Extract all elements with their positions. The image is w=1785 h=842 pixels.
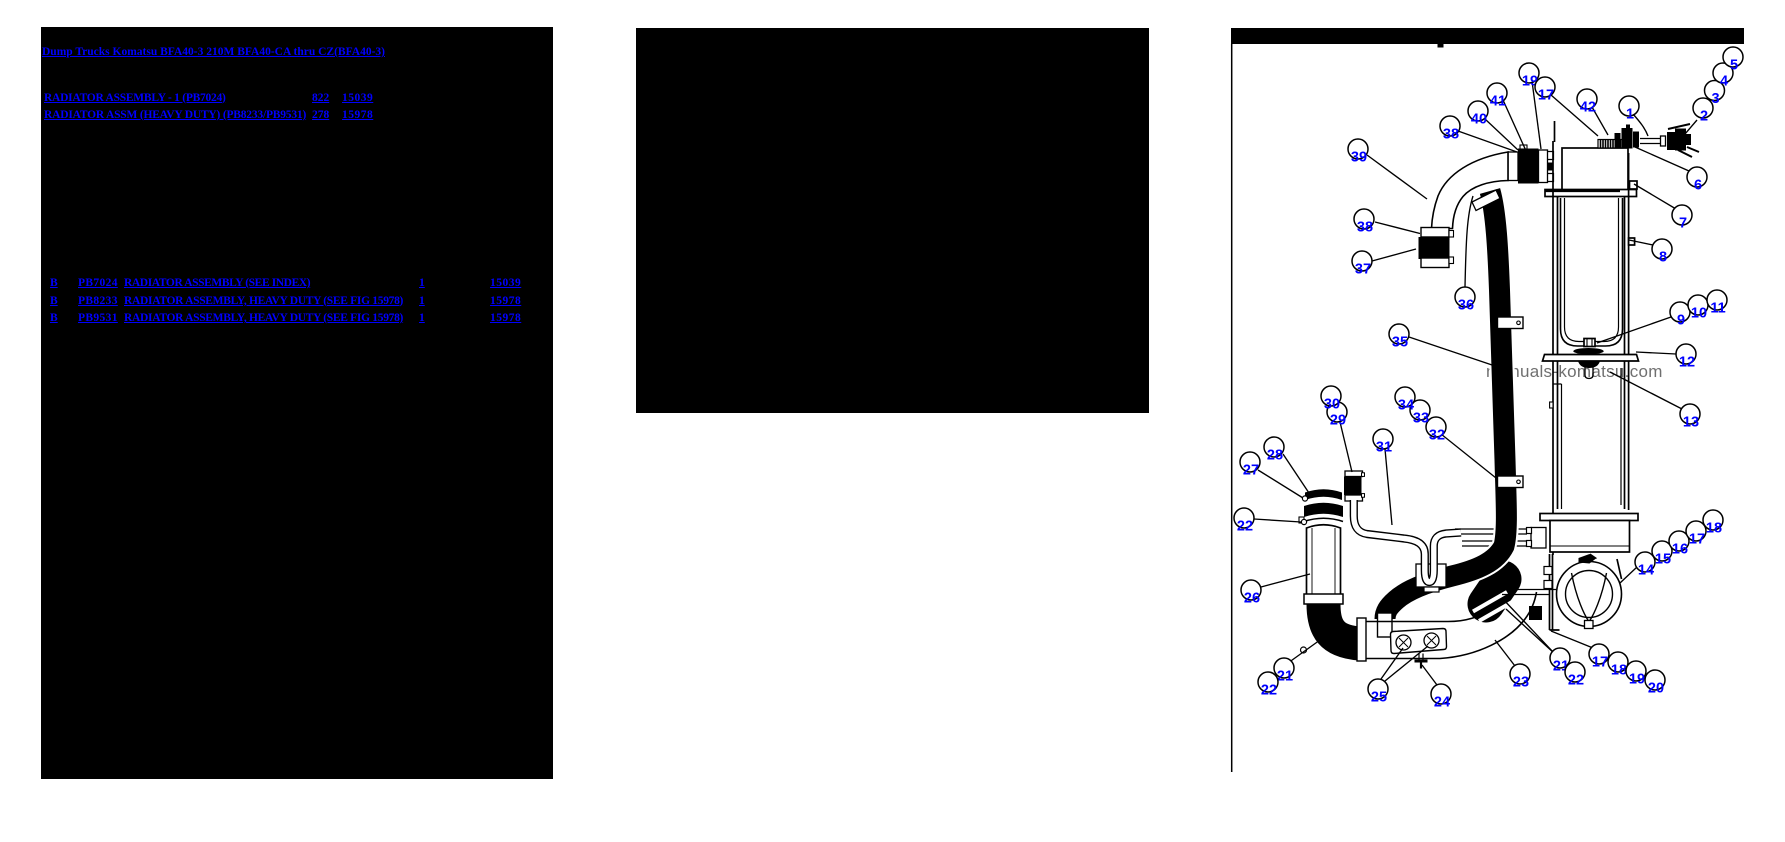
callout 28 bbox=[1264, 437, 1284, 464]
callout 23 bbox=[1510, 664, 1530, 691]
callout 26 bbox=[1241, 580, 1261, 607]
callout 10 bbox=[1688, 295, 1708, 322]
callout 12 bbox=[1676, 344, 1696, 371]
callout 27 bbox=[1240, 452, 1260, 479]
svg-text:3: 3 bbox=[1711, 91, 1719, 107]
vent valve assembly (items 2-5) bbox=[1667, 129, 1691, 151]
index line 2 bbox=[44, 110, 306, 121]
hose coupling clamps (items 37/38) bbox=[1419, 228, 1454, 268]
radiator top tank bbox=[1562, 148, 1628, 190]
drain fitting (item 13 target) bbox=[1585, 367, 1593, 379]
hose bracket upper bbox=[1498, 317, 1524, 329]
svg-text:17: 17 bbox=[1592, 655, 1608, 671]
callout 20 bbox=[1645, 670, 1665, 697]
hose end stub bbox=[1378, 613, 1393, 637]
callout circles bbox=[1234, 47, 1743, 711]
callout 17 bbox=[1589, 644, 1609, 671]
callout 32 bbox=[1426, 417, 1446, 444]
callout 18 bbox=[1608, 652, 1628, 679]
svg-text:15: 15 bbox=[1655, 552, 1671, 568]
svg-text:34: 34 bbox=[1398, 398, 1414, 414]
svg-text:6: 6 bbox=[1694, 178, 1702, 194]
radiator cap assembly (item 1) bbox=[1615, 125, 1640, 149]
overflow nub (item 8 target) bbox=[1629, 238, 1635, 245]
leader tip dots bbox=[1301, 496, 1307, 525]
svg-text:1: 1 bbox=[1626, 107, 1634, 123]
callout 21 bbox=[1550, 648, 1570, 675]
svg-text:35: 35 bbox=[1392, 335, 1408, 351]
svg-text:26: 26 bbox=[1244, 591, 1260, 607]
radiator filler neck (item 42) bbox=[1598, 140, 1623, 149]
upper radiator hose (items 39) bbox=[1432, 152, 1509, 229]
svg-text:27: 27 bbox=[1243, 463, 1259, 479]
tank side bosses bbox=[1548, 152, 1554, 182]
lower tank seal (black) bbox=[1578, 361, 1600, 368]
callout 39 bbox=[1348, 139, 1368, 166]
drain valve (item 24) bbox=[1415, 654, 1428, 669]
callout 17 bbox=[1686, 521, 1706, 548]
svg-text:4: 4 bbox=[1720, 74, 1728, 90]
svg-text:40: 40 bbox=[1471, 112, 1487, 128]
figure left border bbox=[1231, 44, 1233, 772]
callout 40 bbox=[1468, 101, 1488, 128]
svg-text:10: 10 bbox=[1691, 306, 1707, 322]
callout 9 bbox=[1670, 302, 1690, 329]
callout 30 bbox=[1321, 386, 1341, 413]
callout 15 bbox=[1652, 541, 1672, 568]
callout 8 bbox=[1652, 239, 1672, 266]
callout 11 bbox=[1707, 290, 1727, 317]
svg-text:19: 19 bbox=[1629, 672, 1645, 688]
svg-text:13: 13 bbox=[1683, 415, 1699, 431]
leader lines bbox=[1254, 81, 1697, 685]
U-bend bracket bbox=[1416, 564, 1446, 587]
callout 22 bbox=[1258, 672, 1278, 699]
svg-text:16: 16 bbox=[1672, 542, 1688, 558]
svg-text:37: 37 bbox=[1355, 262, 1371, 278]
left catalog panel (black) bbox=[41, 27, 553, 779]
callout 24 bbox=[1431, 684, 1451, 711]
mounting plate with bolts (item 25 targets) bbox=[1391, 629, 1447, 654]
breadcrumb link line bbox=[42, 47, 385, 58]
callout 7 bbox=[1672, 205, 1692, 232]
callout 17 bbox=[1535, 77, 1555, 104]
svg-text:39: 39 bbox=[1351, 150, 1367, 166]
callout 37 bbox=[1352, 251, 1372, 278]
svg-text:36: 36 bbox=[1458, 298, 1474, 314]
svg-text:22: 22 bbox=[1237, 519, 1253, 535]
svg-text:17: 17 bbox=[1689, 532, 1705, 548]
black seal lens bbox=[1573, 348, 1603, 354]
svg-text:38: 38 bbox=[1357, 220, 1373, 236]
parts table row 3 bbox=[50, 313, 58, 324]
callout 31 bbox=[1373, 429, 1393, 456]
svg-text:20: 20 bbox=[1648, 681, 1664, 697]
figure top bar bbox=[1231, 28, 1744, 44]
svg-text:18: 18 bbox=[1611, 663, 1627, 679]
inlet fittings bbox=[1527, 528, 1547, 549]
radiator core shroud upper U bbox=[1561, 198, 1623, 346]
callout 14 bbox=[1635, 552, 1655, 579]
callout 22 bbox=[1234, 508, 1254, 535]
overflow tube bbox=[1640, 139, 1661, 144]
bottom plate bbox=[1540, 514, 1638, 521]
radiator side frames bbox=[1553, 141, 1629, 555]
svg-text:12: 12 bbox=[1679, 355, 1695, 371]
svg-text:7: 7 bbox=[1679, 216, 1687, 232]
svg-text:28: 28 bbox=[1267, 448, 1283, 464]
callout 13 bbox=[1680, 404, 1700, 431]
svg-text:11: 11 bbox=[1710, 301, 1725, 317]
bypass tube (item 31) bbox=[1354, 500, 1461, 582]
callout 2 bbox=[1693, 98, 1713, 125]
callout 19 bbox=[1519, 63, 1539, 90]
svg-text:17: 17 bbox=[1538, 88, 1554, 104]
callout 18 bbox=[1703, 510, 1723, 537]
svg-text:41: 41 bbox=[1490, 94, 1506, 110]
hose bracket lower (item 32 target) bbox=[1498, 476, 1524, 488]
callout 25 bbox=[1368, 679, 1388, 706]
callout 16 bbox=[1669, 531, 1689, 558]
svg-text:29: 29 bbox=[1330, 413, 1346, 429]
pump bracket bbox=[1550, 554, 1560, 630]
callout 34 bbox=[1395, 387, 1415, 414]
watermark bbox=[1486, 362, 1663, 382]
parts table row 1 bbox=[50, 278, 58, 289]
callout 41 bbox=[1487, 83, 1507, 110]
top right bracket (item 7 target) bbox=[1630, 181, 1638, 189]
svg-text:2: 2 bbox=[1700, 109, 1708, 125]
svg-text:33: 33 bbox=[1413, 411, 1429, 427]
svg-text:14: 14 bbox=[1638, 563, 1654, 579]
callout 22 bbox=[1565, 662, 1585, 689]
middle thumbnail panel (black) bbox=[636, 28, 1149, 413]
bypass tube clamp (items 29/30) bbox=[1344, 471, 1365, 501]
callout 36 bbox=[1455, 287, 1475, 314]
svg-text:31: 31 bbox=[1376, 440, 1392, 456]
top bar notch bbox=[1438, 44, 1444, 48]
index line 1 bbox=[44, 93, 226, 104]
callout 42 bbox=[1577, 89, 1597, 116]
svg-text:5: 5 bbox=[1730, 58, 1738, 74]
upper mounting strap bbox=[1545, 190, 1637, 197]
callout 33 bbox=[1410, 400, 1430, 427]
fan pump housing bbox=[1557, 562, 1622, 627]
svg-text:32: 32 bbox=[1429, 428, 1445, 444]
callout 38 bbox=[1354, 209, 1374, 236]
svg-text:30: 30 bbox=[1324, 397, 1340, 413]
svg-text:42: 42 bbox=[1580, 100, 1596, 116]
svg-text:22: 22 bbox=[1261, 683, 1277, 699]
svg-text:38: 38 bbox=[1443, 127, 1459, 143]
callout 19 bbox=[1626, 661, 1646, 688]
outlet hose (items 21/23, black elbow) bbox=[1486, 579, 1503, 604]
callout 3 bbox=[1705, 81, 1725, 108]
parts table row 2 bbox=[50, 296, 58, 307]
svg-text:24: 24 bbox=[1434, 695, 1450, 711]
lower radiator hose (thick S hose) bbox=[1385, 191, 1506, 619]
core bottom bolt (item 9 target) bbox=[1584, 339, 1595, 347]
lower left frame nub bbox=[1550, 402, 1553, 408]
callout 38 bbox=[1440, 116, 1460, 143]
callout 35 bbox=[1389, 324, 1409, 351]
svg-text:9: 9 bbox=[1677, 313, 1685, 329]
fan latch bbox=[1579, 554, 1597, 564]
callout 21 bbox=[1274, 658, 1294, 685]
upper hose clamp block (items 40/41/19/17) bbox=[1508, 145, 1548, 184]
callout 6 bbox=[1687, 167, 1707, 194]
svg-text:8: 8 bbox=[1659, 250, 1667, 266]
svg-text:21: 21 bbox=[1277, 669, 1293, 685]
bottom tube assembly bbox=[1366, 609, 1491, 622]
hose top collar bbox=[1472, 190, 1500, 211]
callout 5 bbox=[1723, 47, 1743, 74]
svg-text:22: 22 bbox=[1568, 673, 1584, 689]
svg-text:23: 23 bbox=[1513, 675, 1529, 691]
lower tank box bbox=[1550, 521, 1630, 553]
feed tubes bbox=[1455, 529, 1527, 546]
mid plate bbox=[1543, 355, 1639, 362]
svg-text:18: 18 bbox=[1706, 521, 1722, 537]
callout 29 bbox=[1327, 402, 1347, 429]
callout 1 bbox=[1619, 96, 1639, 123]
svg-text:25: 25 bbox=[1371, 690, 1387, 706]
big left pipe (items 26/27/28) bbox=[1299, 489, 1366, 661]
callout 4 bbox=[1713, 63, 1733, 90]
